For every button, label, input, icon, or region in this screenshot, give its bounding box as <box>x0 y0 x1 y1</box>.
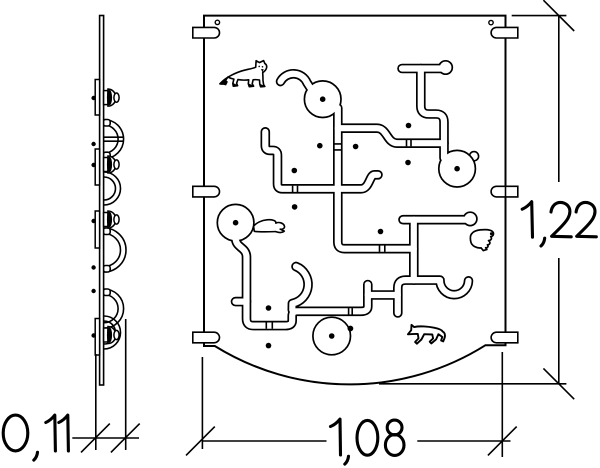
panel outline <box>204 16 506 385</box>
side view knob K4 <box>104 327 120 344</box>
rung on y311 horizontal <box>349 308 353 314</box>
animal wolf bottom <box>408 325 445 344</box>
dot circle C center <box>233 220 239 226</box>
cat nose <box>261 69 264 72</box>
rung on branch jog <box>407 140 412 146</box>
dot x380 y231 <box>378 229 384 235</box>
side view wheel tabs W1 <box>103 120 110 127</box>
bulb T1 white <box>440 62 452 74</box>
cat tail dark tip <box>220 80 227 84</box>
side view wheel arc W2 <box>104 172 121 205</box>
white top-left S piece <box>265 132 378 189</box>
dimension text 0,11 <box>3 415 68 460</box>
track T2 stem <box>409 220 419 280</box>
clamp left middle <box>193 186 220 197</box>
side view wheel arc W4 <box>104 289 124 328</box>
side view track profile rect A <box>95 80 99 116</box>
cat feet dark <box>222 83 265 87</box>
side view knob K3 <box>104 211 120 228</box>
dimension text 1,08 <box>331 419 405 464</box>
side view knob K2 <box>104 156 120 173</box>
white stub <box>236 299 247 305</box>
dimension 1,22 tick top <box>543 0 574 31</box>
dot right of vertical A <box>353 144 359 150</box>
bulb T2 black <box>463 211 478 226</box>
bulb T2 white <box>464 213 476 225</box>
dot x294 y170 <box>292 168 298 174</box>
white T2 stem <box>411 220 417 280</box>
track stub left of circle C vertical <box>236 297 247 307</box>
dimension 1,22 line <box>558 16 560 384</box>
dot x268 y345 <box>266 343 272 349</box>
clamp right top <box>491 27 518 38</box>
white T2 bar <box>403 217 470 223</box>
dimension 1,08 extension lines <box>201 357 203 449</box>
side view wheel arc W3 <box>104 228 126 272</box>
track T2 bar <box>403 215 470 225</box>
dot circle D center <box>329 333 335 339</box>
white T1 bar <box>402 65 446 71</box>
white circle C long path <box>236 232 368 326</box>
animal cat top-left <box>220 61 267 87</box>
side view bolt dot <box>91 96 95 100</box>
white hook cat-tail <box>292 267 308 311</box>
rung on vertical A <box>334 144 341 150</box>
dimension 1,22 tick bottom <box>543 368 574 399</box>
white branch B <box>368 292 398 298</box>
circle C wheel <box>217 204 254 241</box>
white curl at circle A <box>281 74 314 92</box>
side view wheel axle W1 <box>104 137 123 141</box>
side view track profile rect B <box>95 149 99 185</box>
dimension 0,11 extension lines <box>95 354 97 450</box>
dimension 0,11 line <box>72 437 139 439</box>
dot x268 y308 <box>266 305 272 311</box>
animal frog right <box>470 230 493 251</box>
clamp right middle <box>491 186 518 197</box>
clamp left top <box>193 27 220 38</box>
track vertical from circle A <box>338 108 414 249</box>
white T1 stem <box>421 69 444 159</box>
side view knob K1 <box>104 89 120 106</box>
dot circle B center <box>454 166 460 172</box>
bulb T1 black <box>438 60 453 75</box>
rung on y188 horizontal <box>293 186 298 192</box>
hole top-left <box>215 20 219 24</box>
circle A wheel <box>304 81 341 118</box>
rung on y325 horizontal <box>266 322 272 328</box>
dimension 1,08 line <box>202 440 511 442</box>
dimension 1,08 tick left <box>186 427 215 456</box>
track top-left S piece <box>265 132 378 189</box>
side view track profile rect D <box>95 319 99 356</box>
dot left of vertical A <box>317 143 323 149</box>
track hook cat-tail <box>292 267 308 311</box>
track curl at circle A <box>281 74 314 92</box>
dot on circle D edge <box>348 326 354 332</box>
dimension text 1,22 <box>522 202 596 246</box>
circle B wheel <box>439 150 476 187</box>
dimension 1,22 extension lines <box>512 15 567 17</box>
dimension 0,11 tick right <box>111 424 140 453</box>
clamp right bottom <box>491 332 518 343</box>
dimension 0,11 tick left <box>81 424 110 453</box>
side view wheel arc W5 <box>104 316 121 349</box>
side view track profile rect C <box>95 211 99 248</box>
dot circle A center <box>320 96 326 102</box>
track from circle C long path <box>236 232 368 326</box>
animal duck-leaf at circle C <box>254 220 285 233</box>
knob ear circle B <box>469 152 478 161</box>
dot near T1 <box>406 123 412 129</box>
white branch jog <box>338 128 444 143</box>
dimension 1,08 tick right <box>488 427 517 456</box>
white vertical from circle A <box>338 108 414 249</box>
dot x294 y207 <box>292 204 298 210</box>
white horizontal3 dip <box>398 280 469 313</box>
circle D wheel <box>313 317 351 355</box>
track horizontal3 with dip <box>398 280 469 313</box>
rung on y249 horizontal <box>380 246 385 252</box>
side view wheel arc W1 <box>104 120 124 159</box>
side view plate <box>100 16 104 386</box>
track T1 stem to circle B <box>421 69 444 159</box>
dot x408 y162 <box>405 160 411 166</box>
track branch jog to tee <box>338 128 444 143</box>
panel edge through right middle clamp <box>505 186 507 197</box>
track branch B <box>368 290 398 300</box>
track T1 bar <box>402 64 446 74</box>
hole top-right <box>489 20 493 24</box>
clamp left bottom <box>193 332 220 343</box>
cat eyes <box>258 66 260 68</box>
